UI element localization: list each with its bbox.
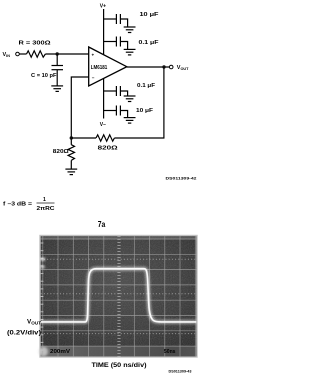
ground for C2: [124, 27, 136, 33]
svg-text:DS011309-43: DS011309-43: [169, 370, 192, 374]
photo bright band top: [41, 236, 197, 239]
node B output junction: [162, 65, 165, 68]
wire branch4: [104, 110, 116, 112]
wire: [56, 70, 58, 86]
photo bright band bottom: [41, 347, 197, 357]
wire: [120, 111, 127, 118]
terminal VIN: [16, 52, 20, 56]
ground for R2: [65, 169, 77, 175]
ground for C4: [124, 96, 136, 102]
capacitor C4 0.1uF: [116, 86, 120, 96]
svg-text:TIME (50 ns/div): TIME (50 ns/div): [92, 362, 147, 369]
capacitor C3 0.1uF: [116, 37, 120, 47]
svg-text:50ns: 50ns: [164, 349, 176, 355]
left edge bright spots: [41, 258, 46, 269]
waveform trace glow: [41, 269, 196, 322]
svg-text:200mV: 200mV: [50, 349, 70, 355]
wire: [56, 54, 58, 65]
svg-text:f −3 dB =: f −3 dB =: [3, 201, 32, 207]
wire feedback bottom: [71, 137, 96, 139]
graticule dotted line upper: [41, 258, 197, 260]
graticule left edge ticks: [41, 243, 44, 350]
node A input junction: [56, 52, 59, 55]
op-amp U1 LM6181: [89, 47, 127, 86]
ground for C3: [124, 49, 136, 55]
svg-text:LM6181: LM6181: [91, 65, 108, 71]
svg-text:1: 1: [43, 197, 46, 203]
svg-text:C = 10 pF: C = 10 pF: [31, 73, 57, 79]
wire: [45, 53, 88, 55]
graticule dotted line lower: [41, 333, 197, 335]
terminal VOUT: [169, 65, 173, 69]
resistor R2 820 ohm vertical: [68, 145, 74, 161]
svg-text:820Ω: 820Ω: [98, 146, 118, 152]
graticule vertical lines: [43, 236, 196, 357]
capacitor C5 10uF: [116, 106, 120, 116]
svg-text:0.1 μF: 0.1 μF: [139, 40, 159, 46]
svg-text:DS011309-42: DS011309-42: [166, 176, 198, 181]
ground for C5: [124, 118, 136, 124]
capacitor C2 10uF: [116, 14, 120, 24]
svg-text:0.1 μF: 0.1 μF: [137, 83, 155, 89]
wire: [70, 160, 72, 169]
svg-text:R = 300Ω: R = 300Ω: [19, 41, 51, 47]
graticule dotted line middle: [41, 293, 197, 295]
wire: [120, 19, 127, 27]
wire: [120, 91, 127, 96]
wire V+ rail: [103, 9, 105, 55]
svg-text:2πRC: 2πRC: [37, 206, 55, 212]
svg-text:V−: V−: [100, 122, 106, 128]
wire: [19, 53, 26, 55]
resistor R1 300 ohm: [27, 51, 46, 57]
svg-text:+: +: [92, 53, 95, 58]
svg-text:−: −: [92, 75, 95, 80]
resistor R3 820 ohm horizontal: [96, 135, 114, 141]
wire V- rail: [103, 78, 105, 119]
ground for C1: [51, 86, 63, 92]
oscilloscope photo frame: [40, 236, 197, 358]
graticule horizontal lines: [41, 239, 197, 346]
wire branch1: [104, 18, 116, 20]
wire inverting input stub: [71, 77, 88, 145]
node C feedback junction: [70, 136, 73, 139]
wire: [120, 42, 127, 50]
capacitor C1 10pF: [52, 66, 64, 70]
svg-text:(0.2V/div): (0.2V/div): [7, 331, 41, 337]
wire branch3: [104, 90, 116, 92]
wire branch2: [104, 41, 116, 43]
svg-text:V+: V+: [100, 4, 106, 10]
photo glare bottom-left corner: [39, 347, 48, 357]
graticule center axis with minor ticks: [117, 236, 120, 357]
waveform trace: [41, 269, 196, 322]
wire: [114, 137, 164, 139]
wire vout feedback riser: [163, 67, 165, 139]
svg-text:7a: 7a: [98, 220, 106, 229]
svg-text:10 μF: 10 μF: [136, 108, 153, 114]
formula f-3dB = 1/(2 pi RC): [3, 197, 55, 212]
wire output: [127, 66, 169, 68]
svg-text:820Ω: 820Ω: [53, 149, 69, 155]
svg-text:10 μF: 10 μF: [140, 12, 159, 18]
